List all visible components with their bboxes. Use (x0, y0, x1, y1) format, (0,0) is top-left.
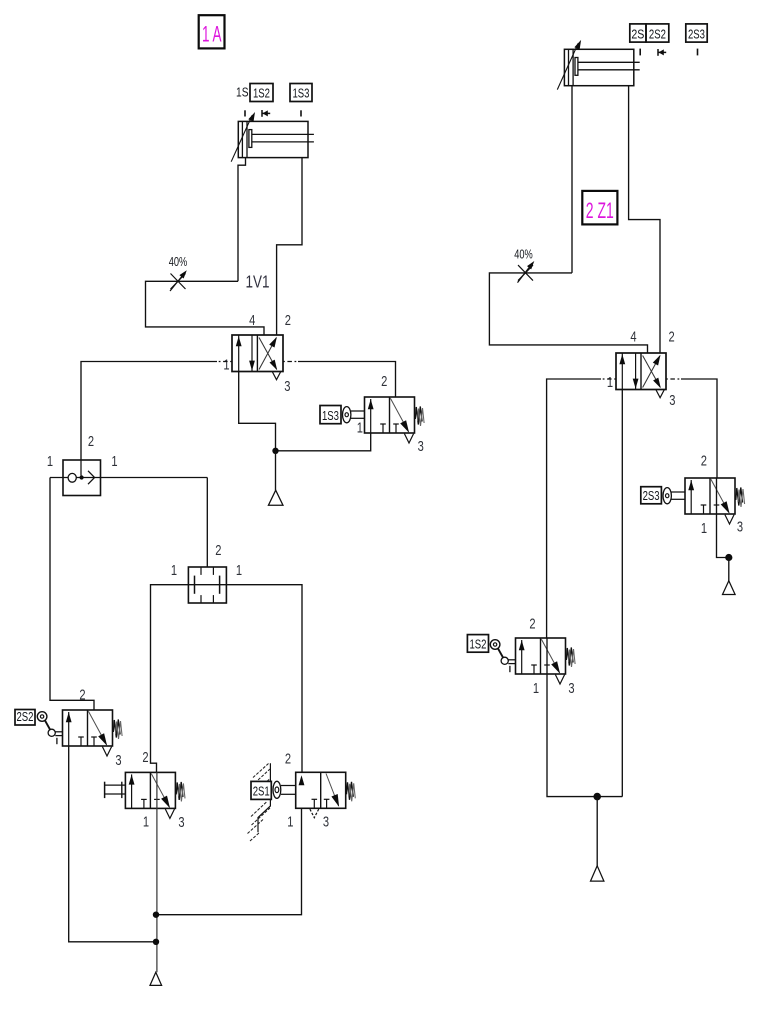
svg-text:2S3: 2S3 (643, 489, 660, 503)
svg-text:3: 3 (178, 814, 184, 831)
junction node D (725, 554, 732, 561)
wire cylinder 1A left port (238, 158, 246, 282)
svg-text:1S2: 1S2 (253, 87, 270, 101)
valve 1S2 (467, 635, 488, 653)
valve 2V1 right position crossed arrows (643, 356, 660, 388)
wire throttle to 2V1 port 4 (489, 273, 647, 353)
throttle valve 40% (171, 274, 186, 290)
junction node E (593, 793, 601, 801)
sensor label box 2S3 (686, 24, 707, 42)
exhaust silencer top right (723, 581, 736, 595)
svg-text:2: 2 (529, 615, 535, 632)
two-pressure valve (188, 567, 226, 603)
svg-text:2 Z1: 2 Z1 (586, 198, 614, 223)
svg-text:2: 2 (285, 312, 291, 329)
valve 1V1 left position arrows (238, 336, 240, 372)
svg-text:2S: 2S (631, 27, 644, 41)
valve 2S3 (641, 487, 662, 504)
cylinder 1A piston rod (249, 130, 252, 148)
svg-text:40%: 40% (169, 254, 188, 269)
svg-text:2: 2 (88, 433, 94, 450)
svg-text:3: 3 (323, 813, 329, 830)
position marker arrow (261, 110, 263, 117)
cylinder 1A body (238, 121, 308, 157)
svg-text:2S2: 2S2 (17, 710, 34, 724)
valve 2S2 (15, 710, 35, 726)
svg-text:1: 1 (111, 453, 117, 470)
svg-text:2S2: 2S2 (649, 27, 666, 41)
svg-text:1S3: 1S3 (293, 87, 310, 101)
wire 2S1 through line to junction (156, 808, 302, 915)
svg-text:1: 1 (357, 420, 363, 437)
wire 2S2 port 1 to junction (69, 746, 156, 942)
wire throttle to 1V1 port 4 (146, 281, 265, 335)
shuttle valve (63, 460, 101, 496)
svg-text:1 A: 1 A (202, 22, 222, 47)
position tick 1S (244, 110, 246, 116)
svg-text:2: 2 (142, 749, 148, 766)
svg-text:2S1: 2S1 (253, 785, 270, 799)
svg-text:1S2: 1S2 (469, 637, 486, 651)
svg-text:2S3: 2S3 (688, 27, 705, 41)
svg-text:3: 3 (737, 518, 743, 535)
svg-text:3: 3 (669, 392, 675, 409)
valve 1S3 (320, 406, 341, 424)
sensor label box 1S2 (250, 84, 273, 102)
position marker arrow right (657, 49, 659, 56)
pilot line 1V1 right to 1S3 port 2 (283, 361, 298, 363)
svg-text:4: 4 (249, 312, 255, 329)
valve 2V1 body (616, 353, 666, 390)
cylinder 1A cushion arrow (231, 115, 252, 162)
position tick 2S3 (697, 49, 699, 56)
wire shuttle right to AND port 2 (206, 478, 208, 568)
wire shuttle through line (50, 477, 207, 479)
svg-text:1: 1 (143, 813, 149, 830)
svg-text:1: 1 (287, 813, 293, 830)
valve 2S1 wall (258, 763, 270, 832)
exhaust silencer bottom left (150, 972, 162, 985)
wire 2S3 through line (717, 478, 729, 558)
wire 2V1 port 1 down (621, 390, 623, 797)
sensor label box 2S (630, 24, 646, 42)
throttle valve 40% right (518, 265, 533, 281)
svg-text:1: 1 (223, 357, 229, 374)
junction node B (153, 912, 159, 918)
valve 2V1 left position arrows (621, 354, 623, 390)
svg-text:1S: 1S (236, 86, 249, 100)
pilot line 1V1 left to shuttle (217, 361, 232, 363)
svg-text:1S3: 1S3 (322, 409, 339, 423)
svg-text:2: 2 (701, 452, 707, 469)
wire AND right to 2S1 port 2 (226, 585, 302, 773)
wire node D to silencer (728, 558, 730, 582)
svg-text:1: 1 (533, 680, 539, 697)
valve 1V1 right position crossed arrows (259, 338, 276, 370)
cylinder 1A piston (241, 121, 243, 157)
valve 1V1 exhaust V port 3 (272, 372, 280, 380)
svg-text:3: 3 (418, 438, 424, 455)
svg-text:1: 1 (607, 374, 613, 391)
junction node C (153, 939, 159, 945)
position tick 2S (639, 49, 641, 56)
wire 1V1 port 1 to junction (239, 372, 276, 451)
wire node E down (596, 797, 598, 866)
circuit label 1A (199, 15, 225, 48)
sensor label box 2S2 (646, 24, 669, 42)
junction node A (272, 448, 278, 454)
svg-text:3: 3 (115, 752, 121, 769)
pushbutton valve (104, 782, 106, 798)
position tick 1S3 (300, 110, 302, 116)
valve 1V1 body (232, 335, 283, 372)
cylinder 2Z1 body (564, 49, 633, 85)
svg-text:2: 2 (79, 686, 85, 703)
pilot line 2V1 left to 1S2 (601, 378, 616, 380)
wire shuttle left to 2S2 port 2 (50, 478, 94, 711)
wire junction to 1S3 port 1 (276, 433, 371, 451)
wire cylinder 2Z1 left port (571, 86, 573, 273)
svg-text:1: 1 (236, 562, 242, 579)
svg-text:3: 3 (568, 680, 574, 697)
svg-text:2: 2 (669, 328, 675, 345)
valve 2S1 (251, 781, 271, 799)
exhaust silencer left circuit (268, 490, 283, 505)
cylinder 2Z1 cushion arrow (557, 43, 578, 90)
wire junction to silencer (275, 451, 277, 491)
svg-text:1: 1 (47, 453, 53, 470)
svg-text:1V1: 1V1 (246, 272, 270, 292)
cylinder 2Z1 piston (568, 49, 570, 85)
svg-text:2: 2 (285, 750, 291, 767)
valve 2V1 exhaust V port 3 (656, 390, 664, 398)
pilot line 2V1 right to 2S3 (666, 378, 681, 380)
wire pushbutton valve through line (156, 772, 158, 972)
wire cylinder 2Z1 right port to 2V1 port 2 (629, 86, 660, 353)
sensor label box 1S3 (290, 84, 312, 102)
wire AND left to pushbutton valve port 2 (151, 585, 189, 773)
cylinder 2Z1 piston rod (575, 58, 578, 76)
svg-text:2: 2 (215, 542, 221, 559)
circuit label 2Z1 (582, 191, 617, 225)
exhaust silencer bottom right (591, 866, 604, 881)
svg-text:2: 2 (381, 373, 387, 390)
svg-text:1: 1 (701, 520, 707, 537)
svg-text:1: 1 (171, 562, 177, 579)
svg-text:4: 4 (630, 328, 636, 345)
wire cylinder 1A right port to 1V1 port 2 (277, 158, 302, 335)
svg-text:3: 3 (284, 378, 290, 395)
svg-text:40%: 40% (514, 246, 533, 261)
wire 1S2 through line to junction E (547, 638, 622, 797)
